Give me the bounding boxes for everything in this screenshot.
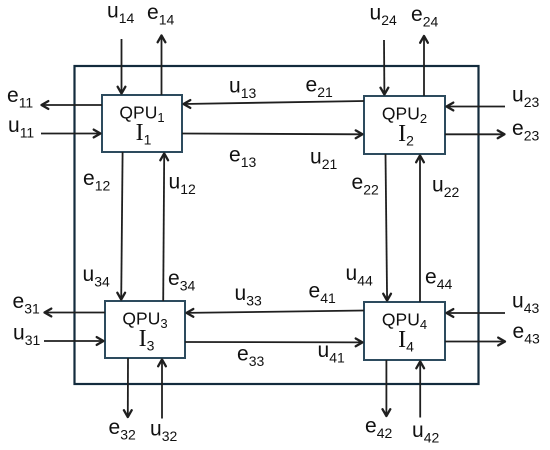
- wire e14 output: [158, 36, 166, 96]
- wire e33 to u41 (QPU3 to QPU4): [185, 339, 363, 347]
- wire u32 input: [158, 360, 166, 419]
- wire e24 output: [420, 36, 428, 96]
- outer system boundary rectangle: [75, 66, 479, 384]
- block QPU3: [105, 301, 185, 358]
- block QPU1: [102, 95, 182, 152]
- wire u14 input: [118, 39, 126, 94]
- wire e41 to u33 (QPU4 to QPU3): [187, 309, 365, 317]
- wire u24 input: [381, 40, 389, 95]
- wire u31 input: [44, 337, 104, 345]
- wire e44 to u22 (QPU4 to QPU2): [416, 156, 424, 303]
- wire u42 input: [416, 362, 424, 418]
- wire u23 input: [447, 103, 506, 111]
- block QPU2: [364, 96, 445, 154]
- wire e23 output: [445, 130, 505, 138]
- wire e21 to u13 (QPU2 to QPU1): [184, 100, 365, 108]
- wire e43 output: [445, 338, 505, 346]
- wire e11 output: [42, 101, 103, 109]
- block QPU4: [364, 302, 445, 360]
- wire e13 to u21 (QPU1 to QPU2): [182, 130, 363, 138]
- wire e31 output: [45, 309, 106, 317]
- wire e22 to u44 (QPU2 to QPU4): [383, 154, 391, 301]
- wire e32 output: [124, 358, 132, 417]
- wire e12 to u34 (QPU1 to QPU3): [117, 152, 125, 300]
- wire e34 to u12 (QPU3 to QPU1): [160, 154, 168, 302]
- wire u11 input: [41, 130, 101, 138]
- wire u43 input: [447, 309, 506, 317]
- wire e42 output: [383, 360, 391, 416]
